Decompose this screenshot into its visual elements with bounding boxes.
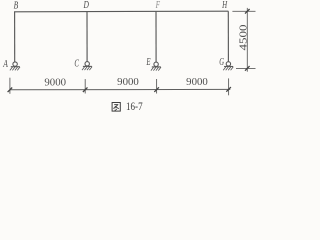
svg-text:F: F (155, 0, 160, 11)
bottom extension line at C (84, 79, 86, 93)
bottom extension line at G (228, 78, 230, 95)
tick at H (245, 9, 250, 14)
right dimension line 4500 (246, 8, 248, 72)
column A-B (14, 12, 16, 62)
right extension line at H (232, 10, 255, 12)
svg-text:9000: 9000 (117, 77, 139, 88)
column C-D (86, 12, 88, 62)
column E-F (155, 11, 157, 62)
support G (pin) (223, 62, 233, 70)
caption character 图 (112, 103, 120, 112)
column G-H (227, 11, 229, 62)
beam B-D-F-H (14, 10, 228, 13)
bottom extension line at A (9, 78, 11, 94)
tick at G (226, 87, 231, 92)
svg-text:B: B (14, 0, 19, 11)
svg-text:G: G (219, 57, 224, 68)
support A (pin) (10, 62, 20, 71)
svg-text:C: C (74, 59, 79, 70)
support C (pin) (82, 62, 92, 71)
tick at A (8, 88, 13, 93)
svg-text:D: D (83, 0, 89, 11)
svg-text:H: H (221, 0, 228, 11)
svg-text:E: E (146, 57, 151, 68)
svg-text:16-7: 16-7 (126, 101, 143, 113)
svg-text:4500: 4500 (239, 25, 250, 51)
support E (pin) (151, 62, 161, 70)
tick at C (83, 87, 88, 92)
bottom extension line at E (156, 79, 158, 94)
tick at E (154, 87, 159, 92)
tick at G level (245, 66, 250, 71)
svg-text:9000: 9000 (186, 77, 208, 88)
right extension line at G (236, 67, 256, 69)
bottom dimension line (10, 88, 230, 90)
svg-text:9000: 9000 (44, 77, 66, 88)
svg-text:A: A (2, 59, 8, 70)
